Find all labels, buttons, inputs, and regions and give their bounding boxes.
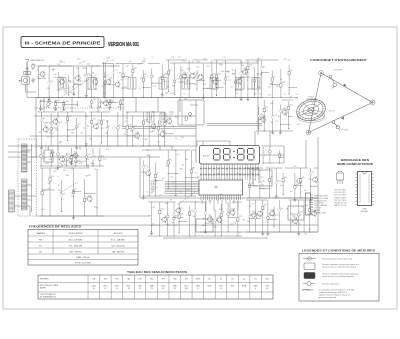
svg-text:L2: L2 [217,200,219,202]
svg-text:C9: C9 [65,123,67,125]
wire dashed diagonal gang link [38,74,97,112]
svg-text:D4: D4 [59,143,61,145]
svg-text:0.5: 0.5 [312,172,315,174]
svg-text:3p3: 3p3 [203,84,206,86]
wire drum drop 2 [317,137,319,168]
svg-text:R41: R41 [87,154,90,156]
connector pin row 2 [200,174,259,176]
svg-text:T05: T05 [194,201,197,203]
svg-text:33k: 33k [171,57,174,59]
svg-text:C77: C77 [134,126,137,128]
svg-text:220: 220 [89,106,92,108]
svg-text:C2: C2 [34,79,36,81]
svg-text:10k: 10k [196,67,199,69]
svg-text:68: 68 [106,127,108,129]
svg-text:C45: C45 [74,128,77,130]
svg-text:1: 1 [235,178,236,180]
svg-text:0.5: 0.5 [65,92,67,94]
svg-text:R25: R25 [166,224,169,226]
wire top left segment [40,65,120,67]
arrowheads on cord [343,84,346,87]
svg-text:L2: L2 [196,73,198,75]
wire tuner internal [31,144,33,212]
svg-text:C31: C31 [60,62,63,64]
svg-text:C31: C31 [295,98,298,100]
svg-text:C9: C9 [273,76,275,78]
svg-text:TR7: TR7 [53,118,56,120]
svg-text:100: 100 [103,159,106,161]
svg-text:C77: C77 [157,142,160,144]
svg-text:R12: R12 [170,114,173,116]
svg-text:T05: T05 [98,107,101,109]
svg-text:TABLEAU DES SEMI-CONDUCTEURS: TABLEAU DES SEMI-CONDUCTEURS [127,270,187,274]
svg-text:L2: L2 [57,176,59,178]
svg-text:R33: R33 [83,68,86,70]
svg-text:C77: C77 [228,80,231,82]
svg-text:10k: 10k [302,177,305,179]
svg-text:R25: R25 [51,176,54,178]
svg-text:C18: C18 [251,182,254,184]
svg-text:1S15: 1S15 [219,286,223,288]
svg-text:4k7: 4k7 [102,85,105,87]
svg-text:100: 100 [259,93,262,95]
svg-text:33k: 33k [185,159,188,161]
svg-text:R12: R12 [85,116,88,118]
svg-text:33k: 33k [85,176,88,178]
svg-text:0.02: 0.02 [42,159,45,161]
svg-text:1: 1 [217,178,218,180]
svg-text:R07: R07 [165,74,168,76]
svg-text:C9: C9 [258,182,260,184]
wire band link 2 [71,98,73,113]
svg-text:C45: C45 [268,95,271,97]
svg-text:0.02: 0.02 [106,149,109,151]
svg-text:D4: D4 [177,203,179,205]
svg-text:1N60: 1N60 [208,286,212,288]
tuner module dashed enclosure [18,139,37,216]
svg-text:TR3: TR3 [115,279,118,281]
svg-text:3p3: 3p3 [217,73,220,75]
svg-text:3p3: 3p3 [64,90,67,92]
svg-text:47k: 47k [172,222,175,224]
edge connector P1 [306,193,311,215]
wire band link 4 [135,98,137,113]
pulley top [319,71,324,76]
svg-text:TR3: TR3 [252,211,255,213]
svg-text:R33: R33 [57,100,60,102]
svg-text:47k: 47k [50,130,53,132]
svg-text:C45: C45 [47,188,50,190]
svg-text:TR4: TR4 [208,215,211,217]
svg-text:R41: R41 [147,150,150,152]
svg-text:T05: T05 [261,185,264,187]
svg-text:68: 68 [145,74,147,76]
wires display to IC pins [201,164,258,180]
svg-text:3p3: 3p3 [147,155,150,157]
transistor package TO-92 [337,173,344,180]
svg-text:e b c: e b c [338,171,342,173]
svg-text:R07: R07 [126,66,129,68]
svg-text:220: 220 [308,229,311,231]
svg-text:100: 100 [62,193,65,195]
svg-text:T05: T05 [76,68,79,70]
svg-text:R41: R41 [64,161,67,163]
wire band link 1 [43,98,45,113]
svg-text:1: 1 [209,178,210,180]
svg-text:C31: C31 [93,119,96,121]
svg-text:R25: R25 [189,116,192,118]
semiconductor table grid [38,275,273,299]
volume control box [44,150,53,162]
svg-text:C18: C18 [275,86,278,88]
svg-text:ET ALIMENTATION: ET ALIMENTATION [40,295,56,298]
wire AM/FM dashed divider [34,107,124,109]
svg-text:220: 220 [184,83,187,85]
svg-text:R07: R07 [57,64,60,66]
svg-text:R12: R12 [124,134,127,136]
dashed diagonal link IC [180,191,196,203]
svg-text:68: 68 [222,212,224,214]
svg-text:C77: C77 [106,121,109,123]
power regulation section [246,200,318,235]
svg-text:FM: FM [39,239,42,241]
svg-text:47k: 47k [79,163,82,165]
svg-text:C77: C77 [148,216,151,218]
svg-text:1k: 1k [108,126,110,128]
wire drum drop 1 [305,140,307,168]
svg-text:C9: C9 [106,61,108,63]
svg-text:R12: R12 [42,153,45,155]
wire band link 7 [57,146,59,150]
svg-text:33k: 33k [69,115,72,117]
svg-text:2k2: 2k2 [284,177,287,179]
tuning gang section 2 [22,179,28,210]
svg-text:11: 11 [116,288,118,290]
svg-text:R12: R12 [216,220,219,222]
svg-text:68: 68 [59,167,61,169]
svg-text:C45: C45 [77,160,80,162]
svg-text:0.02: 0.02 [47,137,50,139]
svg-text:47k: 47k [304,190,307,192]
left edge connector strip [9,190,15,212]
svg-text:L2: L2 [49,101,51,103]
svg-text:68: 68 [249,206,251,208]
svg-text:2SC7: 2SC7 [115,286,119,288]
svg-text:T05: T05 [191,210,194,212]
svg-text:33k: 33k [119,73,122,75]
FM front end section [258,60,298,98]
svg-text:68: 68 [207,88,209,90]
svg-text:220: 220 [210,75,213,77]
svg-text:100: 100 [153,86,156,88]
svg-text:CORDONNET D'ENTRAINEMENT: CORDONNET D'ENTRAINEMENT [310,58,367,62]
svg-text:L2: L2 [233,209,235,211]
svg-text:4k7: 4k7 [152,131,155,133]
svg-text:C9: C9 [184,93,186,95]
svg-text:D3: D3 [231,279,233,281]
svg-text:33k: 33k [193,216,196,218]
svg-text:AM/FM: AM/FM [40,286,46,289]
svg-text:T05: T05 [124,87,127,89]
wire bus y136 [30,135,196,137]
svg-text:88,4 - 109 MHz: 88,4 - 109 MHz [69,239,83,241]
svg-text:FI FM : 10,7 MHz: FI FM : 10,7 MHz [75,263,90,265]
DIP IC package [358,172,372,206]
svg-text:VOL: VOL [45,148,48,150]
svg-text:R12: R12 [207,66,210,68]
svg-text:C77: C77 [71,193,74,195]
svg-text:D4: D4 [69,161,71,163]
svg-text:68: 68 [192,62,194,64]
ferrite rod L1 [24,72,30,75]
svg-text:0.02: 0.02 [223,57,226,59]
svg-text:10k: 10k [143,172,146,174]
svg-text:AP5450: AP5450 [203,155,209,158]
svg-text:4k7: 4k7 [219,209,222,211]
svg-text:T05: T05 [233,223,236,225]
connector callout text [314,196,329,215]
svg-text:100: 100 [232,70,235,72]
legend symbol test point [303,258,316,260]
tuning gang section 1 [22,144,28,172]
audio output section [40,168,104,219]
wire vertical x123 [122,98,124,127]
svg-text:4: 4 [255,288,256,290]
svg-text:R33: R33 [66,175,69,177]
svg-text:1k: 1k [94,156,96,158]
svg-text:1k: 1k [63,62,65,64]
wire section divider pair [103,62,105,98]
legend symbol pcb bottom [304,273,315,279]
svg-text:0.02: 0.02 [142,62,145,64]
svg-text:0.02: 0.02 [208,201,211,203]
svg-text:10k: 10k [87,126,90,128]
svg-text:C45: C45 [59,163,62,165]
svg-text:100: 100 [284,112,287,114]
svg-text:ALIM: ALIM [202,224,207,227]
svg-text:TR1: TR1 [283,108,286,110]
svg-text:TR1: TR1 [92,279,95,281]
svg-text:0.5: 0.5 [204,232,206,234]
svg-text:100: 100 [134,68,137,70]
AM tuner section [36,66,100,101]
svg-text:68: 68 [140,78,142,80]
svg-text:R33: R33 [194,84,197,86]
mixer oscillator section [102,64,166,99]
svg-text:2SA673 (TR8): 2SA673 (TR8) [334,196,346,199]
svg-text:C77: C77 [283,59,286,61]
svg-text:2SC7: 2SC7 [126,286,130,288]
tuning shaft key [329,75,332,78]
svg-text:C18: C18 [152,207,155,209]
svg-text:R33: R33 [175,215,178,217]
svg-text:R07: R07 [175,116,178,118]
svg-text:1k: 1k [299,224,301,226]
svg-text:10k: 10k [280,208,283,210]
svg-text:R07: R07 [111,100,114,102]
wire band link 3 [97,98,99,113]
display aux right [262,146,284,164]
digit 3 [238,148,243,150]
svg-text:10u: 10u [55,169,58,171]
svg-text:TR2: TR2 [104,279,107,281]
svg-text:10k: 10k [275,121,278,123]
svg-text:959: 959 [185,288,188,290]
svg-text:C77: C77 [146,167,149,169]
svg-text:C9: C9 [239,232,241,234]
svg-text:220: 220 [256,73,259,75]
svg-text:C18: C18 [71,196,74,198]
svg-text:4k7: 4k7 [223,83,226,85]
svg-text:GAMMES: GAMMES [36,232,46,235]
svg-text:TR10: TR10 [196,279,200,281]
svg-text:33k: 33k [48,183,51,185]
svg-text:D1: D1 [208,279,210,281]
svg-text:R41: R41 [243,220,246,222]
svg-text:C9: C9 [230,87,232,89]
IC pin numbers [201,178,241,180]
svg-text:68: 68 [255,78,257,80]
svg-text:C9: C9 [164,192,166,194]
svg-text:3p3: 3p3 [95,89,98,91]
svg-text:C18: C18 [297,124,300,126]
dashed diagonal audio [60,182,78,193]
svg-text:TR5: TR5 [138,279,141,281]
svg-text:0.02: 0.02 [52,128,55,130]
svg-text:4k7: 4k7 [57,157,60,159]
svg-text:R33: R33 [184,74,187,76]
svg-text:4k7: 4k7 [162,178,165,180]
svg-text:R33: R33 [152,111,155,113]
svg-text:68: 68 [187,80,189,82]
wire band link 5 [157,98,159,113]
audio preamp section [40,148,104,169]
capacitor on antenna feed [26,66,28,68]
svg-text:2k2: 2k2 [39,132,42,134]
svg-text:1: 1 [230,178,231,180]
svg-text:3450NL: 3450NL [361,211,369,213]
svg-text:masse et avec un voltmetre ele: masse et avec un voltmetre electronique [322,265,356,268]
power supply section [246,168,318,201]
svg-text:R41: R41 [111,85,114,87]
svg-text:C18: C18 [203,58,206,60]
svg-text:33k: 33k [36,70,39,72]
svg-text:generateurs standard: generateurs standard [318,296,336,299]
svg-text:C31: C31 [269,83,272,85]
pulley bottom [306,130,311,135]
svg-text:R12: R12 [77,59,80,61]
wire from left strip [15,195,37,197]
svg-text:10u: 10u [69,92,72,94]
svg-text:33k: 33k [92,163,95,165]
svg-text:33k: 33k [270,103,273,105]
tension spring lever [332,121,335,124]
svg-text:2SD4: 2SD4 [161,286,165,288]
transformer box lower [196,219,213,232]
svg-text:R25: R25 [161,209,164,211]
svg-text:1: 1 [222,178,223,180]
svg-text:4k7: 4k7 [64,164,67,166]
svg-text:220: 220 [94,169,97,171]
connector pin row 1 [200,168,259,170]
svg-text:T05: T05 [170,177,173,179]
svg-text:R07: R07 [164,115,167,117]
wire band link 6 [179,98,181,113]
svg-text:1k: 1k [175,138,177,140]
svg-text:0.5: 0.5 [192,74,194,76]
svg-text:2k2: 2k2 [256,121,259,123]
svg-text:C77: C77 [78,124,81,126]
svg-text:DET: DET [184,99,187,101]
svg-text:1k: 1k [64,156,66,158]
svg-text:C18: C18 [176,79,179,81]
svg-text:3p3: 3p3 [59,60,62,62]
svg-text:0.02: 0.02 [128,124,132,126]
svg-text:520 - 1603 kHz: 520 - 1603 kHz [111,245,125,247]
svg-text:GO: GO [39,251,43,253]
wire band link 10 [254,131,256,146]
svg-text:33k: 33k [278,116,281,118]
svg-text:3p3: 3p3 [177,154,180,156]
svg-text:C31: C31 [138,64,141,66]
svg-text:68: 68 [280,79,282,81]
svg-text:1k: 1k [284,94,286,96]
svg-text:10k: 10k [97,123,100,125]
svg-text:10k: 10k [83,127,86,129]
svg-text:R25: R25 [100,128,103,130]
svg-text:4k7: 4k7 [81,133,84,135]
svg-text:3 TOURS: 3 TOURS [341,130,349,132]
svg-text:C77: C77 [251,204,254,206]
svg-text:33k: 33k [240,62,243,64]
svg-text:C18: C18 [57,90,60,92]
IC bottom pin wires [202,200,238,211]
wire vertical x258 right [257,58,259,135]
svg-text:C45: C45 [289,97,292,99]
svg-text:R25: R25 [274,115,277,117]
legend symbol pcb top [304,263,315,270]
svg-text:100: 100 [80,81,83,83]
svg-text:TR5: TR5 [44,126,47,128]
svg-text:VERSION MA 931: VERSION MA 931 [108,42,139,48]
svg-text:33k: 33k [152,190,155,192]
svg-text:masse et avec un controleur un: masse et avec un controleur universel [322,275,354,278]
IF amplifier section [166,60,258,101]
wire band link 8 [61,164,63,168]
legend symbol connector [303,283,307,285]
svg-text:975 - 2058 kHz: 975 - 2058 kHz [69,245,83,247]
wire lower edge y238 [163,237,268,239]
svg-text:47k: 47k [264,205,267,207]
svg-text:SEMI-CONDUCTEURS: SEMI-CONDUCTEURS [337,162,373,166]
svg-text:0.5: 0.5 [236,89,238,91]
svg-text:III - SCHEMA DE PRINCIPE: III - SCHEMA DE PRINCIPE [25,40,101,45]
svg-text:3p3: 3p3 [129,61,132,63]
wire bottom bus y225 [38,224,318,226]
svg-text:1k: 1k [247,80,249,82]
svg-text:0.5: 0.5 [139,89,141,91]
svg-text:R12: R12 [249,65,252,67]
svg-text:33k: 33k [265,107,268,109]
svg-text:220: 220 [37,77,40,79]
svg-text:C9: C9 [58,116,60,118]
svg-text:R33: R33 [93,99,96,101]
svg-text:C9: C9 [125,118,127,120]
svg-text:62: 62 [174,288,176,290]
svg-text:10u: 10u [270,122,273,124]
svg-text:24: 24 [266,288,268,290]
svg-text:T05: T05 [107,108,110,110]
